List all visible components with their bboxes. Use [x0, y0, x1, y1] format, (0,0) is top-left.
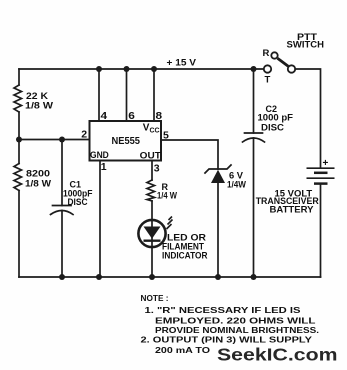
wire +15V top supply rail — [19, 68, 264, 70]
wire switch pole to battery — [295, 69, 320, 167]
svg-text:PROVIDE NOMINAL BRIGHTNESS.: PROVIDE NOMINAL BRIGHTNESS. — [155, 325, 319, 335]
junction C1 bottom — [59, 274, 65, 280]
svg-text:DISC: DISC — [261, 123, 285, 133]
svg-text:T: T — [265, 75, 271, 86]
svg-text:1: 1 — [101, 161, 107, 173]
wire left rail middle segment — [18, 112, 20, 164]
svg-text:1/8 W: 1/8 W — [25, 179, 52, 189]
wire pin 8 — [153, 69, 155, 121]
svg-text:8: 8 — [156, 110, 163, 122]
svg-text:1/4 W: 1/4 W — [157, 191, 177, 201]
wire C1 bottom lead — [61, 211, 63, 278]
junction pin2 wire on left rail — [16, 137, 22, 143]
svg-text:R: R — [263, 48, 270, 59]
zener diode VR1 6V — [205, 165, 231, 173]
svg-text:1/4W: 1/4W — [227, 180, 246, 190]
wire C1 top lead — [61, 140, 63, 206]
wire battery to bottom rail — [320, 185, 322, 278]
svg-text:OUT: OUT — [140, 150, 161, 161]
svg-text:DISC: DISC — [68, 197, 88, 207]
wire LED to bottom rail — [151, 247, 153, 277]
wire bottom ground rail — [19, 276, 321, 278]
svg-text:22 K: 22 K — [26, 91, 49, 101]
junction LED bottom — [149, 274, 155, 280]
wire pin 6 — [126, 69, 128, 121]
LED light rays — [167, 217, 173, 230]
svg-text:1/8 W: 1/8 W — [25, 101, 54, 111]
svg-text:4: 4 — [101, 110, 108, 122]
junction pin1 bottom — [96, 274, 102, 280]
switch contact T — [264, 65, 271, 72]
wire zener to bottom rail — [217, 183, 219, 277]
junction pin 8 on +15V rail — [151, 66, 157, 72]
svg-text:2: 2 — [81, 129, 87, 141]
wire left rail upper segment — [18, 69, 20, 85]
junction pin 6 on +15V rail — [124, 66, 130, 72]
svg-text:1. "R" NECESSARY IF LED IS: 1. "R" NECESSARY IF LED IS — [145, 305, 301, 315]
switch contact R — [271, 52, 277, 58]
switch pole contact — [288, 65, 295, 72]
wire left rail lower segment — [18, 191, 20, 278]
svg-text:SWITCH: SWITCH — [287, 40, 325, 50]
svg-text:INDICATOR: INDICATOR — [162, 250, 208, 260]
wire pin 3 lead — [151, 161, 153, 181]
junction C2 bottom — [251, 274, 257, 280]
junction pin 4 on +15V rail — [96, 66, 102, 72]
svg-text:200 mA TO: 200 mA TO — [155, 345, 210, 355]
svg-text:NE555: NE555 — [112, 136, 141, 147]
svg-text:EMPLOYED. 220 OHMS WILL: EMPLOYED. 220 OHMS WILL — [155, 316, 316, 326]
note text — [141, 293, 320, 355]
switch arm — [278, 58, 289, 66]
junction C1 top — [59, 137, 65, 143]
battery BT1 — [307, 167, 335, 169]
resistor R 1/4W — [147, 180, 155, 201]
wire pin 5 — [161, 140, 218, 169]
wire C2 bottom lead — [253, 138, 255, 277]
svg-text:SeekIC.com: SeekIC.com — [217, 345, 338, 365]
wire pin 4 — [98, 69, 100, 121]
svg-text:6: 6 — [128, 110, 135, 122]
svg-text:2. OUTPUT (PIN 3) WILL SUPPLY: 2. OUTPUT (PIN 3) WILL SUPPLY — [141, 335, 313, 345]
resistor 22K — [14, 85, 22, 112]
junction zener bottom — [215, 274, 221, 280]
svg-text:+ 15 V: + 15 V — [167, 58, 197, 68]
svg-text:8200: 8200 — [26, 169, 50, 179]
svg-text:+: + — [323, 158, 329, 169]
svg-text:3: 3 — [154, 163, 160, 175]
LED indicator DS1 — [138, 220, 165, 247]
wire to pin 2 — [19, 139, 90, 141]
svg-text:NOTE :: NOTE : — [141, 293, 169, 303]
junction C2 on +15V rail — [251, 66, 257, 72]
wire C2 top lead — [253, 69, 255, 133]
svg-text:GND: GND — [90, 149, 109, 160]
capacitor C2 — [245, 132, 263, 134]
IC U1 NE555 timer — [90, 121, 162, 161]
wire pin 1 GND lead — [99, 161, 101, 278]
svg-text:1000 pF: 1000 pF — [258, 113, 294, 123]
resistor 8200 — [14, 164, 22, 191]
wire R to LED — [151, 201, 153, 220]
svg-text:BATTERY: BATTERY — [270, 205, 314, 215]
svg-text:5: 5 — [163, 129, 169, 141]
capacitor C1 — [53, 205, 72, 207]
